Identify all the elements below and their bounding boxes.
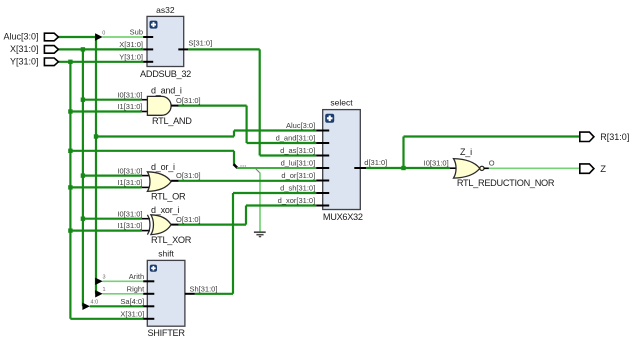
svg-text:MUX6X32: MUX6X32 bbox=[323, 212, 363, 222]
svg-text:Aluc[3:0]: Aluc[3:0] bbox=[3, 32, 38, 42]
svg-text:Y[31:0]: Y[31:0] bbox=[119, 53, 143, 62]
svg-text:RTL_AND: RTL_AND bbox=[152, 116, 192, 126]
svg-text:shift: shift bbox=[158, 248, 174, 258]
svg-text:RTL_XOR: RTL_XOR bbox=[151, 235, 192, 245]
svg-text:RTL_REDUCTION_NOR: RTL_REDUCTION_NOR bbox=[457, 178, 555, 188]
svg-text:select: select bbox=[330, 98, 353, 108]
svg-text:3: 3 bbox=[103, 275, 106, 281]
svg-text:Right: Right bbox=[127, 284, 145, 293]
svg-text:S[31:0]: S[31:0] bbox=[188, 39, 212, 48]
svg-text:X[31:0]: X[31:0] bbox=[10, 44, 39, 54]
svg-text:as32: as32 bbox=[156, 5, 175, 15]
svg-text:Sh[31:0]: Sh[31:0] bbox=[190, 284, 218, 293]
svg-text:I1[31:0]: I1[31:0] bbox=[117, 221, 142, 230]
svg-text:d_xor[31:0]: d_xor[31:0] bbox=[278, 196, 316, 205]
svg-text:4:0: 4:0 bbox=[91, 300, 99, 306]
svg-text:I0[31:0]: I0[31:0] bbox=[424, 158, 449, 167]
svg-text:O: O bbox=[489, 158, 495, 167]
svg-text:d_xor_i: d_xor_i bbox=[151, 205, 179, 215]
svg-text:Sa[4:0]: Sa[4:0] bbox=[120, 297, 144, 306]
svg-text:X[31:0]: X[31:0] bbox=[120, 309, 144, 318]
svg-text:I0[31:0]: I0[31:0] bbox=[117, 90, 142, 99]
svg-text:0: 0 bbox=[102, 31, 105, 37]
svg-text:I1[31:0]: I1[31:0] bbox=[117, 178, 142, 187]
svg-text:Z_i: Z_i bbox=[460, 147, 472, 157]
svg-text:Z: Z bbox=[600, 164, 606, 175]
svg-text:I1[31:0]: I1[31:0] bbox=[117, 102, 142, 111]
svg-text:d[31:0]: d[31:0] bbox=[364, 158, 387, 167]
svg-text:d_sh[31:0]: d_sh[31:0] bbox=[280, 183, 315, 192]
svg-text:I0[31:0]: I0[31:0] bbox=[117, 209, 142, 218]
svg-text:SHIFTER: SHIFTER bbox=[147, 328, 185, 338]
svg-text:O[31:0]: O[31:0] bbox=[176, 215, 201, 224]
svg-text:1: 1 bbox=[103, 287, 106, 293]
svg-text:Sub: Sub bbox=[130, 28, 143, 37]
svg-text:d_lui[31:0]: d_lui[31:0] bbox=[281, 158, 316, 167]
svg-text:d_and[31:0]: d_and[31:0] bbox=[276, 133, 316, 142]
svg-text:X[31:0]: X[31:0] bbox=[119, 40, 143, 49]
svg-text:Arith: Arith bbox=[129, 272, 144, 281]
svg-text:I0[31:0]: I0[31:0] bbox=[117, 166, 142, 175]
svg-text:O[31:0]: O[31:0] bbox=[176, 171, 201, 180]
svg-text:d_or_i: d_or_i bbox=[151, 162, 175, 172]
svg-text:R[31:0]: R[31:0] bbox=[600, 132, 629, 142]
svg-text:Aluc[3:0]: Aluc[3:0] bbox=[286, 121, 315, 130]
svg-text:O[31:0]: O[31:0] bbox=[176, 96, 201, 105]
svg-text:d_as[31:0]: d_as[31:0] bbox=[280, 146, 315, 155]
svg-text:ADDSUB_32: ADDSUB_32 bbox=[140, 69, 191, 79]
svg-text:Y[31:0]: Y[31:0] bbox=[10, 57, 39, 67]
svg-text:d_or[31:0]: d_or[31:0] bbox=[281, 171, 315, 180]
svg-text:d_and_i: d_and_i bbox=[151, 85, 182, 95]
svg-text:RTL_OR: RTL_OR bbox=[151, 191, 186, 201]
